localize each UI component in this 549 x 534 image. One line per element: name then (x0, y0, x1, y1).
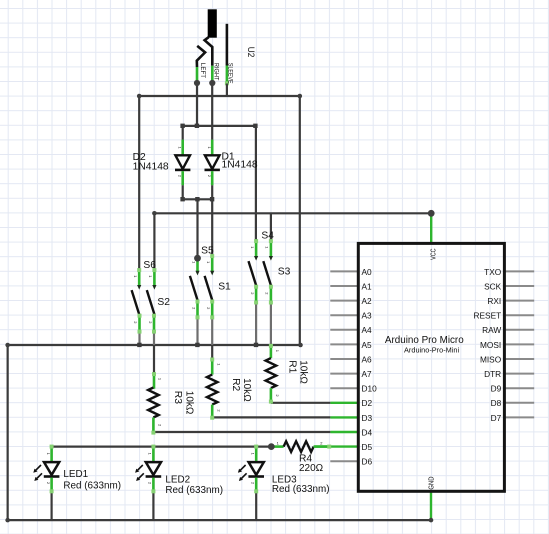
wire diode top rail (183, 125, 256, 127)
S5 top pin green (196, 258, 199, 272)
svg-text:D6: D6 (362, 457, 373, 467)
wire LED1 bottom (50, 491, 52, 520)
S1 bottom pin green (211, 301, 214, 317)
S6 endpoint markers (137, 268, 141, 334)
S1 arrowhead (210, 271, 214, 276)
pin LEFT green (196, 67, 199, 83)
S3 lever (263, 261, 271, 287)
wire S2 top feed (153, 213, 155, 270)
svg-text:Arduino-Pro-Mini: Arduino-Pro-Mini (404, 346, 459, 355)
svg-text:A6: A6 (362, 354, 373, 364)
svg-text:D9: D9 (491, 384, 502, 394)
R1 zigzag (266, 358, 277, 388)
resistor R1 (266, 344, 309, 404)
wire top horizontal net sleeve-to-S6 (139, 95, 300, 97)
D1 black lead ends (211, 126, 213, 199)
LED3 endpoint markers (254, 445, 258, 494)
wire LED3 bottom (255, 491, 257, 520)
S5 lever (190, 276, 198, 302)
sleeve contact (226, 24, 229, 66)
S2 top pin green (153, 270, 156, 286)
svg-text:D10: D10 (362, 384, 378, 394)
R4 endpoint marker (327, 445, 331, 449)
pin stubs right unconnected (504, 271, 534, 417)
D2 top lead (181, 140, 184, 155)
svg-text:LEFT: LEFT (199, 63, 206, 78)
S5 endpoint markers (196, 300, 200, 320)
diode D2 (133, 126, 191, 199)
svg-text:RESET: RESET (474, 311, 502, 321)
wire LEFT jack to diode rail (196, 83, 198, 126)
junction dot VCC rail end (428, 210, 435, 217)
wire VCC rail (154, 212, 431, 214)
LED1 bar (44, 475, 60, 478)
audio jack U2 (194, 9, 257, 96)
bend dot bottom-left (5, 518, 10, 523)
wire S1 bottom to R2 (211, 345, 213, 359)
D2 black lead ends (182, 126, 184, 199)
svg-text:A7: A7 (362, 369, 373, 379)
wire switch bottom rail (8, 344, 301, 346)
square dot diode rail right (253, 124, 257, 128)
R1 top lead (270, 346, 273, 359)
D1 top lead (211, 140, 214, 155)
svg-text:DTR: DTR (484, 369, 501, 379)
S6 bottom pin green (138, 316, 141, 332)
svg-text:A1: A1 (362, 281, 373, 291)
S2 bottom pin green (153, 316, 156, 332)
svg-text:LED1: LED1 (63, 469, 88, 480)
svg-text:RAW: RAW (482, 325, 501, 335)
switch S6 (132, 260, 157, 333)
S1 lever (205, 276, 213, 302)
square dot diode rail LEFT-T (195, 124, 199, 128)
wire sleeve to horizontal (226, 84, 228, 97)
LED2 endpoint markers (151, 445, 155, 494)
svg-text:LED2: LED2 (165, 474, 190, 485)
left contact (197, 46, 205, 67)
wire left vertical (7, 345, 9, 520)
S4 top pin green (255, 241, 258, 257)
LED2 bar (146, 475, 162, 478)
S5 junction dot (194, 255, 201, 262)
R3 zigzag (148, 388, 159, 418)
junction dot LEFT (194, 80, 200, 86)
bend dot rail right end (298, 343, 303, 348)
R2 top lead (211, 359, 214, 374)
svg-text:TXO: TXO (484, 267, 502, 277)
S4 lever (249, 261, 257, 287)
R4 junction dot (268, 443, 275, 450)
wire S5 bottom to rail (196, 317, 198, 345)
bend dot top-right (298, 94, 303, 99)
wire sleeve right drop to bottom rail (299, 96, 301, 345)
svg-text:D3: D3 (362, 413, 373, 423)
S6 top pin green (138, 270, 141, 286)
switch S4 (249, 231, 275, 305)
square dot diode rail left (180, 124, 184, 128)
svg-text:SCK: SCK (484, 281, 502, 291)
junction dot RIGHT (209, 80, 215, 86)
wire S6 bottom to rail (138, 332, 140, 345)
Arduino Pro Micro U1 (315, 213, 535, 520)
square dot S4 bottom junction (254, 343, 258, 347)
LED3 bottom lead (255, 478, 258, 492)
wire S5 junction to S5 pin (196, 257, 198, 260)
svg-text:D5: D5 (362, 442, 373, 452)
S2 lever (147, 290, 155, 316)
S6 arrowhead (137, 285, 141, 290)
S4 bottom pin green (255, 287, 258, 303)
svg-text:220Ω: 220Ω (299, 463, 324, 474)
square dot S5 bottom junction (195, 343, 199, 347)
svg-text:A2: A2 (362, 296, 373, 306)
R4 right lead (314, 445, 331, 448)
S1 top pin green (211, 256, 214, 272)
R3 top lead (152, 374, 155, 388)
R4 left lead (271, 445, 283, 448)
sleeve endpoint marker (225, 81, 229, 85)
R3 bottom lead (152, 418, 155, 434)
bend dot bottom-right (429, 518, 434, 523)
svg-text:A3: A3 (362, 311, 373, 321)
square dot diode bottom rail left (180, 197, 184, 201)
S5 arrowhead (195, 271, 199, 276)
wire S2 bottom to R3 (153, 345, 155, 374)
switch S3 (263, 239, 290, 304)
LED2 light arrows (135, 465, 144, 481)
pin stubs left unconnected (330, 271, 358, 461)
LED3 (238, 445, 330, 495)
D2 triangle (175, 155, 190, 169)
LED2 (135, 445, 223, 496)
diode D1 (205, 126, 258, 199)
wire R1 to D2 (271, 402, 331, 404)
LED1 triangle (44, 462, 59, 475)
D1 triangle (205, 155, 220, 169)
bend dot top-left (137, 94, 142, 99)
pin SLEEVE green (226, 66, 229, 84)
resistor R2 (207, 358, 252, 420)
wire diode mid drop to S5 (196, 199, 198, 258)
LED3 light arrows (238, 465, 247, 481)
switch S2 (147, 268, 170, 334)
VCC pin green (430, 213, 432, 243)
R1 bottom lead (270, 388, 273, 403)
square dot diode bottom mid (195, 197, 199, 201)
svg-text:Red (633nm): Red (633nm) (165, 485, 223, 496)
svg-text:10kΩ: 10kΩ (298, 360, 309, 384)
resistor R4 (268, 440, 331, 474)
S4 endpoint markers (254, 239, 258, 304)
R2 endpoint markers (210, 358, 214, 420)
S5 bottom pin green (196, 301, 199, 317)
IC body (358, 243, 504, 491)
LED1 light arrows (33, 465, 42, 481)
svg-text:GND: GND (427, 476, 436, 490)
S3 bottom pin green (270, 287, 273, 303)
right pin labels (474, 267, 502, 423)
svg-text:S3: S3 (278, 267, 291, 278)
S2 endpoint markers (152, 268, 156, 334)
wire D-top-rail drop to S4 (255, 126, 257, 241)
S2 arrowhead (152, 285, 156, 290)
wire LED2 bottom (152, 491, 154, 520)
svg-text:1N4148: 1N4148 (133, 162, 169, 173)
square dot S6 bottom junction (137, 343, 141, 347)
svg-text:MOSI: MOSI (480, 340, 501, 350)
R1 endpoint markers (269, 344, 273, 404)
svg-text:Red (633nm): Red (633nm) (63, 481, 121, 492)
LED1 top lead (50, 447, 53, 462)
svg-text:D2: D2 (362, 398, 373, 408)
wire S3 top feed (270, 213, 272, 241)
D1 bottom lead (211, 171, 214, 185)
LED3 triangle (249, 462, 264, 475)
LED1 endpoint markers (50, 445, 54, 494)
S4 arrowhead (254, 256, 258, 261)
svg-text:SLEEVE: SLEEVE (227, 63, 234, 84)
GND pin green (430, 491, 432, 520)
svg-text:10kΩ: 10kΩ (184, 391, 195, 415)
LED2 triangle (146, 462, 161, 475)
svg-text:R1: R1 (286, 360, 297, 373)
bend dot rail left end (5, 343, 10, 348)
svg-text:VCC: VCC (428, 248, 437, 260)
LED1 (33, 445, 121, 494)
left pin labels (362, 267, 378, 467)
S3 endpoint markers (269, 239, 273, 304)
svg-text:Arduino Pro Micro: Arduino Pro Micro (385, 335, 464, 346)
wire diode bottom rail (183, 198, 213, 200)
D2 bottom lead (181, 171, 184, 185)
S3 top pin green (270, 241, 273, 257)
D2 bar (175, 169, 190, 172)
wire R2 to D3 (212, 416, 330, 418)
plug body (208, 9, 217, 37)
wire R3 to D4 (153, 431, 330, 433)
wire S3 bottom to R1 (270, 344, 272, 347)
switch S5 (190, 246, 214, 320)
wire LED top rail (52, 446, 272, 448)
svg-text:U2: U2 (246, 47, 257, 58)
right contact (205, 37, 213, 66)
wire S4 bottom to rail (255, 303, 257, 346)
resistor R3 (148, 372, 194, 435)
LED3 top lead (255, 447, 258, 462)
LED1 bottom lead (50, 478, 53, 492)
svg-text:S1: S1 (218, 282, 231, 293)
svg-text:RXI: RXI (487, 296, 501, 306)
D1 bar (205, 169, 220, 172)
R2 bottom lead (211, 405, 214, 419)
wire ground bottom rail (8, 519, 431, 521)
svg-text:Red (633nm): Red (633nm) (272, 484, 330, 495)
svg-text:R3: R3 (172, 391, 183, 404)
svg-text:10kΩ: 10kΩ (241, 378, 252, 402)
svg-text:A0: A0 (362, 267, 373, 277)
pin RIGHT green (211, 66, 214, 83)
LED3 bar (248, 475, 264, 478)
R4 zigzag (284, 441, 314, 452)
S6 lever (132, 290, 140, 316)
svg-text:A5: A5 (362, 340, 373, 350)
wire D1 bottom to S1 top (211, 199, 213, 256)
svg-text:D7: D7 (491, 413, 502, 423)
svg-text:D8: D8 (491, 398, 502, 408)
R2 zigzag (207, 375, 218, 405)
svg-text:MISO: MISO (480, 354, 502, 364)
R3 endpoint markers (151, 372, 156, 435)
bend dot S2 corner (152, 211, 157, 216)
wire S6 top feed (138, 96, 140, 270)
LED2 top lead (152, 447, 155, 462)
svg-text:A4: A4 (362, 325, 373, 335)
LED2 bottom lead (152, 478, 155, 492)
svg-text:R2: R2 (230, 378, 241, 391)
square dot diode bottom rail right (210, 197, 214, 201)
svg-text:D4: D4 (362, 427, 373, 437)
green connected stubs D2 D3 D4 D5 (315, 403, 359, 447)
S3 arrowhead (269, 256, 273, 261)
svg-text:RIGHT: RIGHT (212, 63, 219, 81)
switch S1 (205, 254, 231, 319)
S1 endpoint markers (210, 254, 214, 319)
svg-text:1N4148: 1N4148 (222, 160, 258, 171)
wire RIGHT jack down (211, 83, 213, 126)
svg-text:S2: S2 (157, 297, 170, 308)
